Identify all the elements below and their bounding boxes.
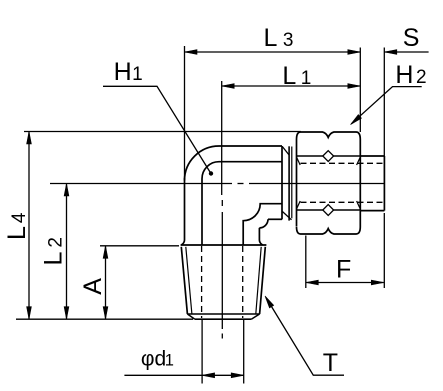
svg-text:T: T xyxy=(323,349,338,377)
svg-text:A: A xyxy=(79,278,107,295)
dimension A xyxy=(105,246,107,319)
dimension L1 xyxy=(222,85,361,87)
dimension phi-d1 xyxy=(201,320,203,384)
union nut H2 outline xyxy=(297,132,361,226)
dimension L3 xyxy=(185,51,361,53)
nut middle-face corner chamfers xyxy=(297,157,301,165)
leader T xyxy=(266,298,344,376)
leader H2 xyxy=(352,87,422,124)
nut facet line lower xyxy=(297,209,323,211)
svg-text:S: S xyxy=(403,24,420,52)
leader H1 xyxy=(103,86,210,172)
svg-text:F: F xyxy=(336,256,351,284)
hidden female thread lines xyxy=(301,162,385,164)
H1 reference dot xyxy=(209,171,213,175)
male taper thread T profile xyxy=(181,247,187,314)
dimension S xyxy=(384,51,428,53)
nut facet line upper xyxy=(297,155,323,157)
tube stub S xyxy=(359,156,361,211)
dimension F xyxy=(306,282,384,284)
shoulder line xyxy=(181,244,267,246)
centerline horizontal (arm axis, also L2 extension) xyxy=(50,183,232,185)
centerline vertical (thread axis) xyxy=(221,200,223,206)
collar between body and nut xyxy=(288,146,290,220)
dimension L4 xyxy=(28,132,30,320)
svg-text:φd1: φd1 xyxy=(141,348,174,371)
elbow inner tube contour xyxy=(202,162,282,245)
thread root hidden lines xyxy=(201,246,203,318)
elbow body outer profile xyxy=(181,178,184,245)
dimension L2 xyxy=(66,184,68,320)
